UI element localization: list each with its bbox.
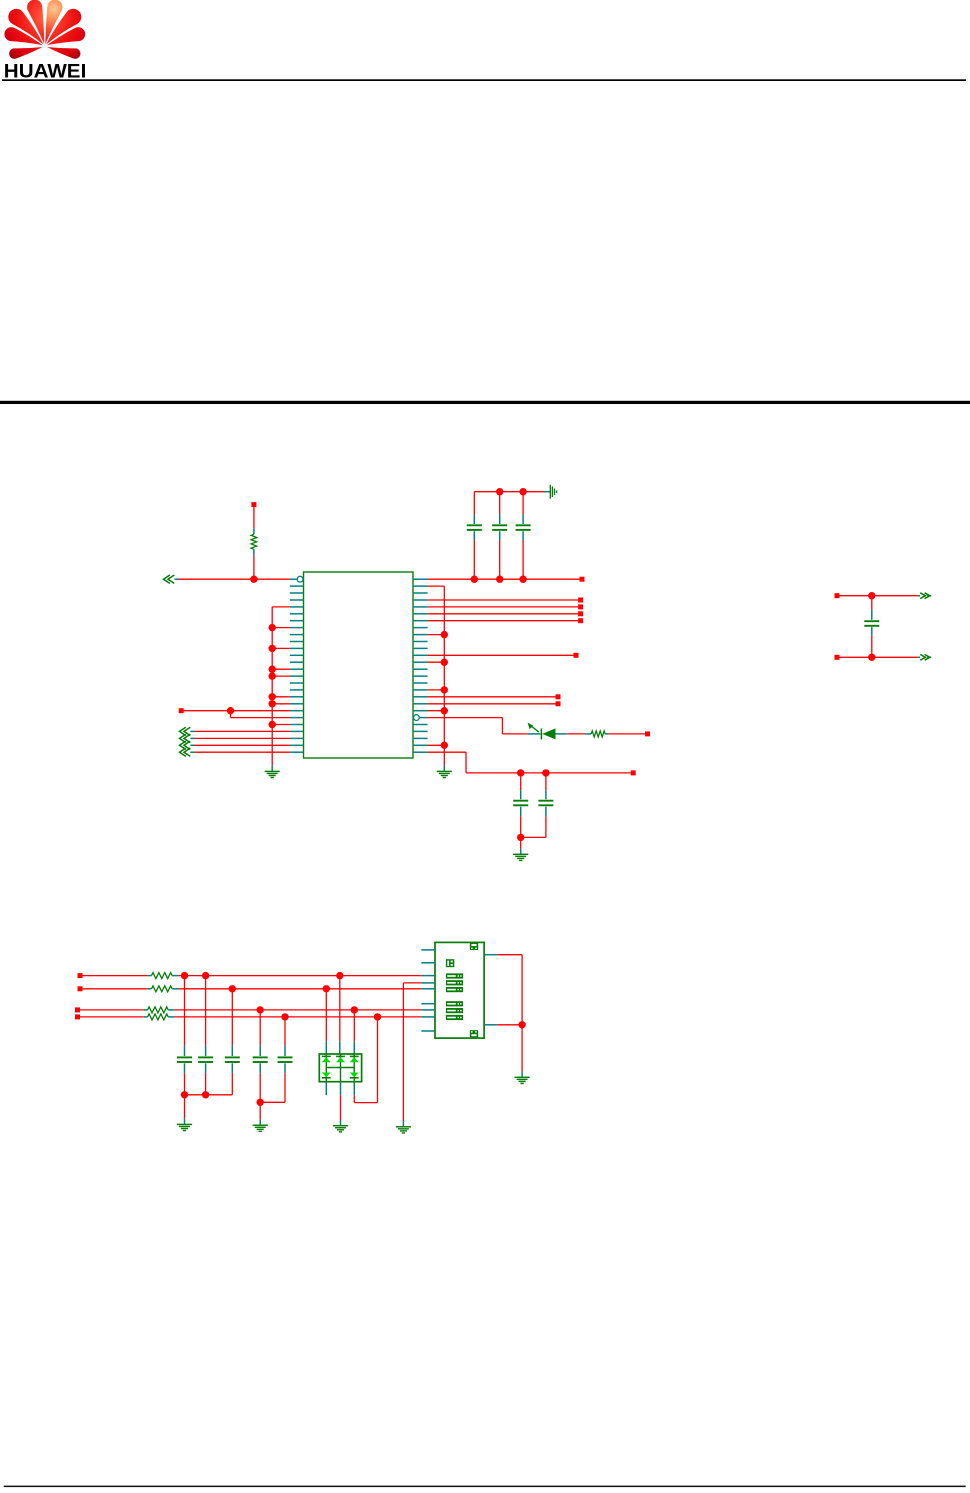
junction on right bus at pin20 (441, 707, 448, 714)
wire pin25 left (195, 744, 290, 746)
wire W4 left segment (75, 1014, 144, 1019)
LED D1 (528, 723, 567, 740)
wire to ground A (184, 1095, 186, 1124)
Huawei logo petal 8 (bottom-right) (47, 47, 80, 59)
junction (868, 592, 875, 599)
Huawei logo petal 5 (top-right) (45, 0, 62, 44)
junction (374, 1013, 381, 1020)
capacitor (filter at x=285.0) (278, 1017, 293, 1102)
junction on wire (229, 985, 236, 992)
capacitor C4a (513, 773, 528, 838)
ground (diode array) (333, 1126, 348, 1132)
capacitor C (decoupling at x=474.3) (467, 492, 482, 580)
wire W4 to connector (175, 1016, 422, 1018)
resistor R2 (series with LED) (585, 731, 609, 737)
wire left pin14 to bus (272, 668, 290, 670)
net stub terminal above R1 (251, 502, 256, 507)
wire W2 left segment (78, 986, 148, 991)
wire pin12R (428, 654, 574, 656)
capacitor (filter at x=232.3) (225, 989, 240, 1095)
wire W2 to diode array (325, 989, 327, 1054)
junction on left bus at pin22 (269, 721, 276, 728)
junction (181, 1091, 188, 1098)
cap group A bottom rail (185, 1094, 233, 1096)
ground (J1 r6) (396, 1127, 411, 1133)
junction on left bus at pin14 (269, 666, 276, 673)
wire pin18R (428, 696, 556, 698)
wire W1 to connector (179, 975, 422, 977)
decoupling top rail (474, 491, 550, 493)
wire pin2R to right ground bus (428, 585, 445, 587)
resistor R3 (W1) (148, 973, 179, 979)
J1 contact glyph (446, 1001, 463, 1006)
junction on right bus at pin25 (441, 742, 448, 749)
capacitor (filter at x=260.2) (253, 1010, 268, 1102)
resistor R1 (pull-up, vertical) (251, 507, 257, 579)
wire to ground B (259, 1102, 261, 1125)
net stub terminal pin7R (578, 618, 583, 623)
J1 right pins (484, 955, 497, 1025)
wire bottom rail (right aux) (839, 656, 917, 658)
capacitor C (decoupling at x=499.7) (492, 492, 507, 580)
U1 right pins 27-52 (pin with inversion bubble at row 21) (413, 579, 428, 752)
wire W2 to connector (179, 988, 422, 990)
wire left pin11 to bus (272, 647, 290, 649)
chassis ground (top right) (550, 485, 556, 499)
wire R2 to terminal (609, 733, 646, 735)
J1 left pins (421, 950, 435, 1031)
wire left pin8 to bus (272, 627, 290, 629)
resistor R4 (W2) (148, 986, 179, 992)
wire left pin22 to bus (272, 724, 290, 726)
junction (336, 972, 343, 979)
off-page connector (left pin23) (180, 727, 195, 735)
off-page connector (left pin25) (180, 741, 195, 749)
resistor R6 (W4) (144, 1014, 175, 1020)
off-page connector right (bottom) (918, 654, 931, 660)
junction on left bus at pin15 (269, 672, 276, 679)
Huawei logo petal 3 (upper-left) (8, 9, 43, 45)
ground (left bus) (265, 771, 280, 777)
Huawei logo petal 6 (upper-right) (46, 9, 81, 45)
left ground bus (271, 607, 273, 771)
junction node row20 (227, 707, 234, 714)
net stub terminal pin4R (578, 598, 583, 603)
net stub terminal (cap rail) (631, 770, 636, 775)
wire top rail (right aux) (839, 595, 917, 597)
junction on right bus at pin17 (441, 686, 448, 693)
wire W3 to diode array (353, 1010, 355, 1054)
junction (519, 576, 526, 583)
J1 contact glyph (446, 1008, 463, 1013)
cap group B bottom rail (260, 1101, 285, 1103)
J1 contact glyph (446, 1015, 463, 1020)
wire J1 pin r6 to ground (403, 983, 421, 1127)
junction (471, 576, 478, 583)
junction on right bus at pin13 (441, 659, 448, 666)
op-amp U1 body (IC) (304, 572, 414, 758)
wire to pin20 (184, 710, 290, 712)
wire right pin20 to bus (428, 710, 445, 712)
right ground bus (443, 586, 445, 771)
junction on wire (281, 1013, 288, 1020)
wire to ground (520, 837, 522, 854)
J1 contact glyph (446, 980, 463, 985)
wire right pin9 to bus (428, 634, 445, 636)
U1 left pins 1-26 (pin 1 with inversion bubble) (290, 576, 304, 752)
junction on left bus at pin8 (269, 624, 276, 631)
J1 polarization key (top-right) (470, 943, 478, 950)
ground (cap pair) (513, 854, 528, 860)
junction on left bus at pin19 (269, 700, 276, 707)
wire array center to ground (340, 1082, 342, 1126)
junction (517, 769, 524, 776)
wire VCC rail (right pin row1) (428, 578, 580, 580)
wire pin26 left (195, 751, 290, 753)
resistor R5 (W3) (144, 1007, 175, 1013)
J1 polarization key (bottom-right) (470, 1030, 478, 1037)
section divider bar (0, 401, 970, 404)
net stub terminal pin19R (556, 701, 561, 706)
net stub terminal pin18R (556, 694, 561, 699)
net stub terminal (835, 593, 840, 598)
footer rule (4, 1486, 966, 1488)
capacitor C7 (aux) (864, 596, 879, 658)
wire pin19R (428, 703, 556, 705)
wire J1 right pins loop (497, 955, 522, 1025)
junction on right bus at pin9 (441, 631, 448, 638)
net stub terminal VCC (580, 577, 585, 582)
junction (202, 1091, 209, 1098)
wire pin24 left (195, 737, 290, 739)
J1 contact glyph (446, 987, 463, 992)
node junction at R1 bottom (250, 576, 257, 583)
Huawei logo wordmark (4, 62, 87, 83)
junction (257, 1099, 264, 1106)
net stub terminal (LED net) (645, 731, 650, 736)
J1 contact glyph (446, 973, 463, 978)
wire W3 left segment (75, 1007, 144, 1012)
wire data line pin5R (428, 606, 579, 608)
wire W4 to diode array bottom (354, 1017, 377, 1103)
capacitor (filter at x=205.6) (198, 976, 213, 1095)
junction on wire (181, 972, 188, 979)
wire left pin18 to bus (272, 696, 290, 698)
Huawei logo petal 4 (top-left) (27, 0, 44, 44)
off-page connector (left pin26) (180, 748, 195, 756)
off-page connector net A (pin1 left) (164, 575, 179, 583)
junction on left bus at pin11 (269, 645, 276, 652)
diode array D2 body (319, 1054, 361, 1082)
wire W1 to diode array (339, 976, 341, 1054)
wire right pin13 to bus (428, 661, 445, 663)
wire J1 shield to ground (521, 1025, 523, 1077)
capacitor C (decoupling at x=523.1) (516, 492, 531, 580)
junction (517, 834, 524, 841)
net stub terminal (835, 655, 840, 660)
off-page connector (left pin24) (180, 734, 195, 742)
diode array D2 internal diodes (322, 1054, 359, 1082)
Huawei logo petal 2 (left) (4, 27, 42, 45)
header rule (2, 79, 966, 81)
junction (519, 488, 526, 495)
wire data line pin6R (428, 613, 579, 615)
connector J1 body (435, 942, 484, 1038)
wire right pin25 to bus (428, 744, 445, 746)
wire pin21R to LED (428, 718, 528, 734)
net stub terminal pin5R (578, 604, 583, 609)
junction (518, 1021, 525, 1028)
wire data line pin4R (428, 599, 579, 601)
wire W3 to connector (175, 1009, 422, 1011)
wire LED to R2 (567, 733, 585, 735)
wire data line pin7R (428, 620, 579, 622)
wire pin1 left (179, 578, 290, 580)
wire W1 left segment (78, 973, 148, 978)
junction (496, 576, 503, 583)
junction (496, 488, 503, 495)
wire pin5 to ground bus (272, 606, 290, 608)
junction on wire (257, 1006, 264, 1013)
junction (868, 654, 875, 661)
junction on left bus at pin18 (269, 693, 276, 700)
ground (right bus) (437, 771, 452, 777)
wire right pin17 to bus (428, 689, 445, 691)
wire pin26R to cap pair rail (428, 752, 631, 773)
wire left pin15 to bus (272, 675, 290, 677)
junction on wire (202, 972, 209, 979)
capacitor C4b (521, 773, 554, 838)
Huawei logo petal 1 (bottom-left) (9, 47, 42, 59)
J1 pin-1 marker glyph (446, 959, 454, 967)
Huawei logo petal 7 (right) (47, 27, 85, 45)
off-page connector right (top) (918, 593, 931, 599)
wire to pin21 (231, 711, 290, 718)
junction (542, 769, 549, 776)
net stub terminal pin12R (574, 653, 579, 658)
junction (351, 1006, 358, 1013)
ground (J1 shield) (515, 1077, 530, 1083)
ground (group B) (253, 1125, 268, 1131)
ground (group A) (177, 1124, 192, 1130)
wire left pin19 to bus (272, 703, 290, 705)
diode array stub (bottom-left) (325, 1082, 327, 1096)
wire pin23 left (195, 730, 290, 732)
capacitor (filter at x=184.5) (177, 976, 192, 1095)
net stub terminal pin6R (578, 611, 583, 616)
junction (323, 985, 330, 992)
net stub terminal (left, row20) (179, 708, 184, 713)
